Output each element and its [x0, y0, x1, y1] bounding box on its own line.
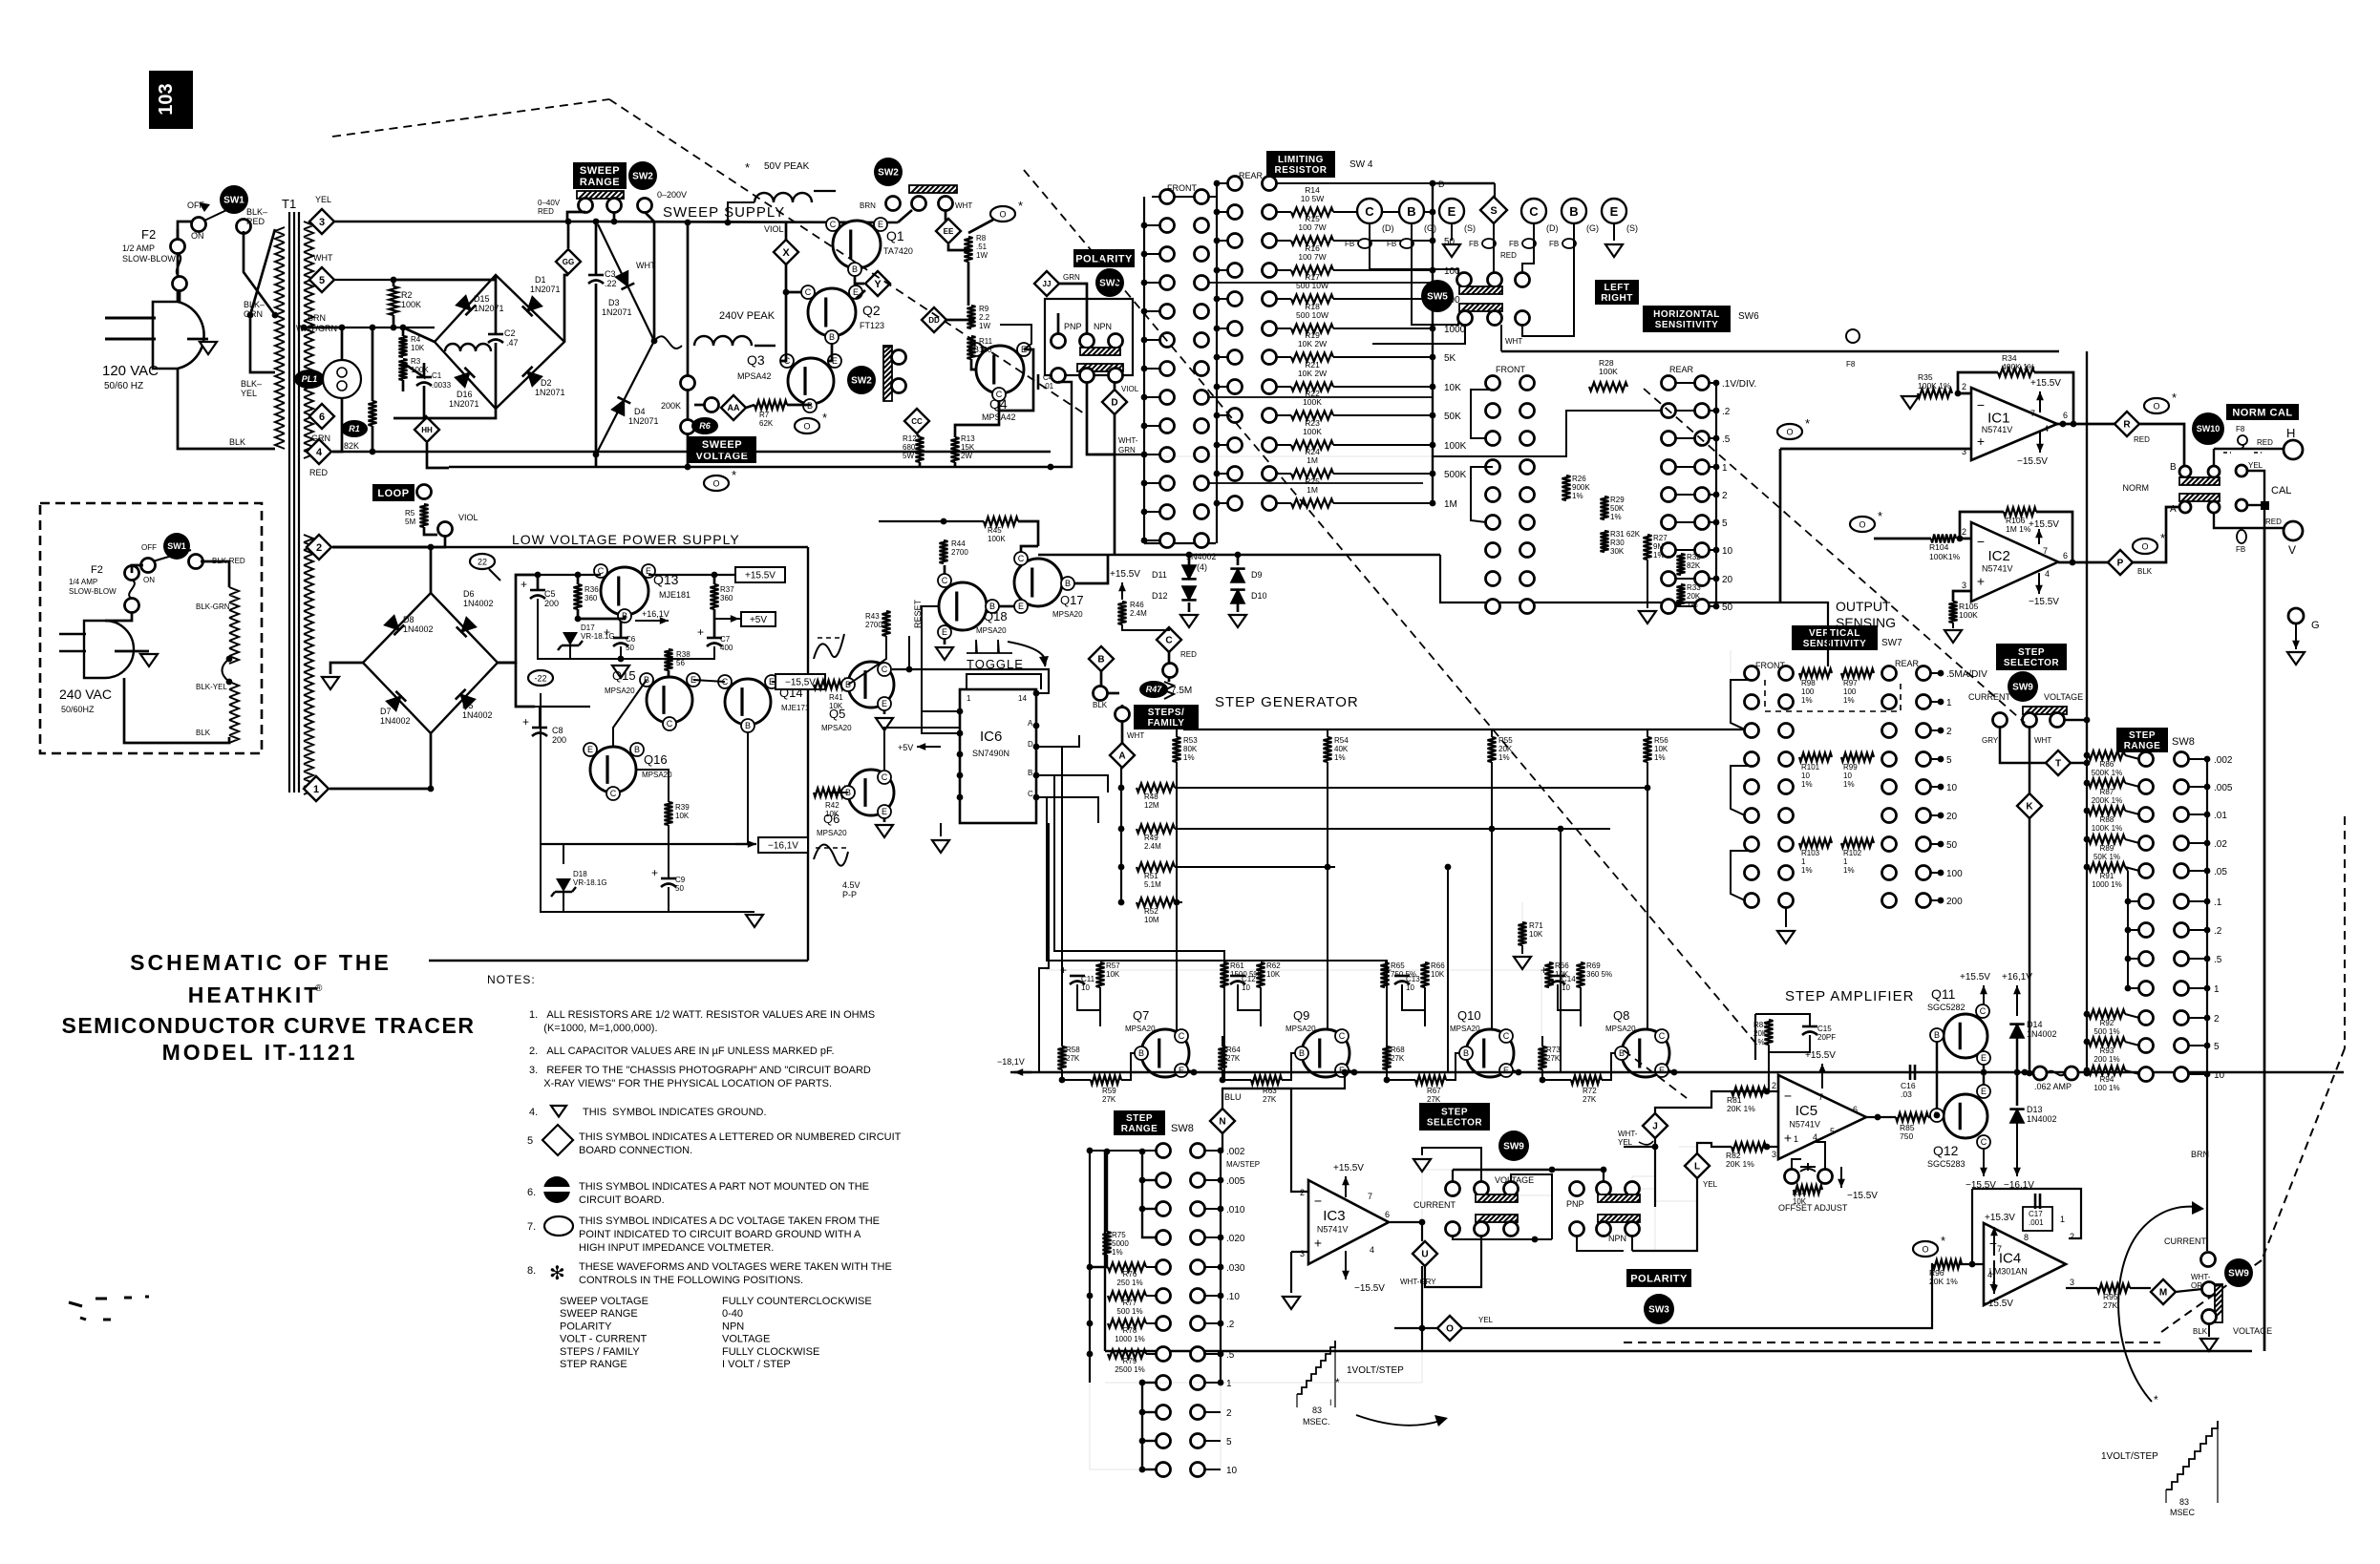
SW4 rear bus dot 7 [1214, 384, 1221, 391]
svg-text:RED: RED [246, 217, 266, 226]
wire ic2 out [2058, 561, 2108, 564]
svg-text:RED: RED [309, 468, 329, 477]
svg-text:R4: R4 [411, 335, 421, 344]
node 4 (transformer tap) [307, 439, 331, 464]
junction r36 [575, 572, 582, 579]
svg-text:LEFT: LEFT [1604, 283, 1630, 293]
contact CURRENT sw9 [2201, 1253, 2216, 1267]
arrow -16.1 d13 [2016, 1123, 2018, 1176]
junction r75 top [1104, 1149, 1111, 1155]
svg-text:SWEEP SUPPLY: SWEEP SUPPLY [663, 204, 785, 221]
svg-text:10K: 10K [1654, 745, 1668, 753]
wire B to blk [1100, 671, 1103, 686]
svg-text:R53: R53 [1183, 736, 1198, 745]
svg-text:C2: C2 [504, 328, 516, 338]
SW6 rear link 5 [1675, 521, 1695, 523]
AA left contact [705, 398, 719, 412]
junction Q7 e [1191, 1069, 1198, 1076]
wire loop down [424, 527, 437, 535]
svg-text:−15.5V: −15.5V [2029, 597, 2059, 607]
wire q12 e up [1983, 1072, 1986, 1085]
terminal V big [2284, 521, 2303, 540]
T1 core line 2 [293, 212, 295, 793]
svg-text:10M: 10M [1144, 916, 1159, 924]
SW4 rear contact 3 [1228, 264, 1243, 278]
wire R17 right [1333, 298, 1433, 300]
SW7 rear contact 5 [1882, 809, 1897, 823]
wire R72 to base [1602, 1053, 1615, 1080]
svg-text:RANGE: RANGE [2124, 741, 2161, 751]
wire q18 b to q17 e [999, 605, 1014, 608]
resistor R21 10K 2W [1291, 383, 1333, 391]
svg-text:WHT-: WHT- [1118, 436, 1138, 445]
node U [1413, 1241, 1437, 1266]
dashed diag E [1644, 389, 2025, 723]
LR contact l [1516, 311, 1530, 326]
SW4 rear contact b 2 [1263, 234, 1277, 248]
svg-text:.030: .030 [1226, 1263, 1245, 1274]
capacitor C17 .001 box [2023, 1207, 2052, 1231]
transistor Q3 MPSA42 [788, 358, 834, 404]
wire Q8 c up [1657, 1029, 1662, 1032]
svg-text:1%: 1% [1801, 866, 1813, 875]
op-amp IC1 N5741V [1971, 388, 2057, 460]
ferrite bead [1482, 239, 1496, 248]
svg-text:1M: 1M [1307, 485, 1318, 495]
svg-text:2700: 2700 [865, 621, 882, 629]
svg-text:SGC5282: SGC5282 [1927, 1003, 1966, 1012]
wire bottom join [595, 454, 598, 467]
wire r71 top [1521, 902, 1523, 922]
SW2 vertical hatch bar [883, 346, 892, 401]
svg-text:YEL: YEL [1618, 1138, 1633, 1147]
svg-text:1/2 AMP: 1/2 AMP [122, 243, 155, 253]
plug240 prong bot [59, 650, 86, 653]
svg-text:IC3: IC3 [1323, 1208, 1345, 1224]
wire M to contact [2176, 1289, 2202, 1292]
SW7 front contact b 3 [1779, 752, 1794, 767]
svg-text:200K: 200K [661, 401, 681, 411]
svg-text:240 VAC: 240 VAC [59, 687, 112, 702]
fuse F2 terminal top [171, 240, 185, 254]
svg-text:C: C [1503, 1031, 1510, 1041]
svg-text:1N2071: 1N2071 [449, 399, 479, 409]
SW8l link 11 [1204, 1469, 1221, 1470]
svg-text:1VOLT/STEP: 1VOLT/STEP [2101, 1451, 2158, 1462]
node 2 (transformer tap) [307, 535, 331, 560]
240VAC option dashed box [40, 503, 262, 753]
wire CC down [917, 434, 920, 437]
svg-text:R13: R13 [961, 434, 975, 443]
capacitor C14 10 [1550, 975, 1565, 978]
label STEP RANGE left [1114, 1110, 1165, 1135]
wire fb top bus [1433, 182, 1495, 184]
wire O left [1394, 1327, 1437, 1329]
svg-text:J: J [1652, 1122, 1658, 1132]
arrow +15.5 c [1121, 582, 1123, 600]
svg-text:15K: 15K [961, 443, 975, 452]
svg-text:6.: 6. [527, 1187, 536, 1198]
resistor R49 2.4M [1137, 825, 1175, 834]
wire R92 right [2125, 1014, 2139, 1018]
svg-text:O: O [712, 479, 719, 489]
wire R15 left [1276, 240, 1291, 242]
svg-text:50K 1%: 50K 1% [2093, 853, 2120, 861]
SW6 rear contact b 4 [1695, 488, 1710, 502]
svg-text:2: 2 [316, 542, 322, 554]
junction n bus [1342, 1069, 1349, 1076]
SW1 contact right [237, 220, 251, 234]
wire jj down [1059, 284, 1087, 334]
svg-text:+: + [1977, 433, 1985, 449]
svg-text:C14: C14 [1562, 975, 1576, 983]
SW4 front contact 4 [1160, 333, 1175, 348]
dc oval ic1 out [2144, 398, 2169, 413]
svg-text:THESE WAVEFORMS AND VOLTAGES W: THESE WAVEFORMS AND VOLTAGES WERE TAKEN … [579, 1261, 892, 1273]
wire ic6 C out [1036, 797, 1098, 823]
junction sw2 mid [611, 219, 618, 225]
node X [774, 240, 798, 264]
svg-text:SLOW-BLOW: SLOW-BLOW [122, 254, 176, 264]
ground r27 [1639, 611, 1656, 623]
SW7 rear contact b 4 [1917, 780, 1931, 794]
svg-text:SELECTOR: SELECTOR [1427, 1118, 1483, 1129]
svg-text:0–40V: 0–40V [538, 199, 561, 207]
wire R17 left [1276, 298, 1291, 300]
capacitor C5 200 [530, 589, 545, 592]
svg-text:10: 10 [1722, 546, 1733, 557]
svg-text:+15.5V: +15.5V [745, 571, 776, 581]
svg-text:100K: 100K [1303, 427, 1322, 436]
junction d11 top [1186, 552, 1193, 559]
svg-text:D13: D13 [2027, 1105, 2043, 1114]
socket lead S [1493, 223, 1495, 241]
wire socket b1 down [1412, 241, 1458, 325]
svg-text:E: E [1659, 1066, 1665, 1075]
SW8r link 0 [2188, 758, 2207, 760]
SW6 front contact 5 [1486, 516, 1500, 530]
transistor Q8 MPSA20 [1622, 1029, 1669, 1077]
SW6 front box outline2 [1471, 467, 1493, 522]
svg-text:1: 1 [1843, 857, 1848, 866]
svg-text:+: + [1314, 1235, 1322, 1250]
SW6 front contact b 7 [1520, 572, 1535, 586]
wire Q10 c up [1501, 1029, 1506, 1032]
inductor 50V peak [754, 193, 812, 202]
svg-text:FB: FB [1469, 240, 1478, 248]
SW6 front contact b 8 [1520, 600, 1535, 614]
switch SW3 bubble [1095, 268, 1124, 297]
svg-text:100: 100 [1801, 687, 1815, 696]
socket terminal E [1602, 199, 1626, 223]
svg-text:GRN: GRN [1118, 446, 1136, 454]
wire R62 down [1260, 987, 1262, 1026]
resistor R89 50K 1% [2089, 835, 2125, 844]
wire q13 rail2 [648, 574, 737, 576]
SW4 rear contact 10 [1228, 467, 1243, 481]
SW8l contact 4 [1157, 1260, 1171, 1275]
svg-text:(K=1000, M=1,000,000).: (K=1000, M=1,000,000). [529, 1023, 658, 1034]
svg-text:2: 2 [1962, 527, 1966, 537]
svg-text:+15.5V: +15.5V [2029, 519, 2059, 530]
svg-text:REAR: REAR [1239, 171, 1264, 180]
PNPr low a [1570, 1222, 1584, 1236]
svg-text:1%: 1% [1801, 780, 1813, 789]
wire D up [1114, 382, 1116, 390]
resistor R32 82K [1677, 554, 1686, 575]
SW7 rear contact b 8 [1917, 894, 1931, 908]
wire T to bus [2071, 762, 2087, 765]
label VERTICAL SENSITIVITY [1792, 625, 1878, 650]
SW5 wiper upper [1459, 286, 1502, 294]
node J [1643, 1113, 1668, 1138]
svg-text:LIMITING: LIMITING [1278, 155, 1324, 165]
wire R53 col down [1176, 762, 1178, 902]
node CC [904, 409, 929, 433]
wire col 1562 lower [1491, 829, 1493, 1032]
wire R58 top [1061, 1036, 1063, 1046]
SW2 vertical hatch [885, 345, 891, 347]
fuse 240 top [125, 566, 139, 581]
svg-text:2.4M: 2.4M [1144, 842, 1161, 851]
svg-text:R42: R42 [825, 801, 839, 810]
svg-text:R97: R97 [1843, 679, 1858, 687]
svg-text:R56: R56 [1654, 736, 1668, 745]
SW7 front contact 3 [1745, 752, 1759, 767]
junction q5c [906, 666, 913, 673]
SW4 rear contact b 3 [1263, 264, 1277, 278]
IC6 left pin dot [957, 730, 964, 737]
wire blk gnd [2208, 1323, 2210, 1337]
wire Q1 B down [855, 276, 864, 284]
wire C1 top [403, 363, 424, 377]
ground R35 [1902, 396, 1919, 409]
svg-text:R72: R72 [1583, 1087, 1597, 1095]
svg-text:SW6: SW6 [1738, 311, 1759, 322]
SW8r right bus [2206, 759, 2208, 1074]
SW4 rear contact 5 [1228, 322, 1243, 336]
SW4 rear stub 0 [1217, 182, 1228, 184]
svg-text:OFF: OFF [141, 543, 157, 552]
SW6 front contact 6 [1486, 543, 1500, 558]
junction row868 drop [1558, 826, 1564, 833]
capacitor C1 .0033 [416, 376, 432, 379]
svg-text:.01: .01 [2214, 811, 2227, 821]
SW8r contact b 1 [2175, 780, 2189, 794]
SW4 front contact b 3 [1195, 305, 1209, 319]
arrow into +5v [726, 618, 739, 620]
svg-text:H: H [2286, 426, 2295, 440]
resistor R33 20K 1% [1677, 584, 1686, 605]
svg-text:SWEEP: SWEEP [702, 439, 742, 451]
dc oval bottom bus [704, 476, 729, 491]
svg-text:E: E [1179, 1066, 1184, 1075]
svg-text:YEL: YEL [241, 389, 257, 398]
svg-text:20: 20 [1722, 575, 1733, 585]
junction d9 top [1235, 552, 1242, 559]
SW6 front contact b 4 [1520, 488, 1535, 502]
wire r75 top [1106, 1152, 1108, 1232]
SW8r inner stub 1004 [2128, 958, 2139, 960]
svg-text:WHT: WHT [313, 253, 333, 263]
svg-text:SEMICONDUCTOR CURVE TRACER: SEMICONDUCTOR CURVE TRACER [61, 1013, 475, 1038]
SW4 rear contact 0 [1228, 177, 1243, 191]
svg-text:.5: .5 [1226, 1350, 1235, 1361]
SW8r contact b 11 [2175, 1067, 2189, 1082]
wire R2 bottom to brn [393, 315, 395, 328]
svg-text:+16,1V: +16,1V [2002, 972, 2032, 983]
svg-text:(4): (4) [1197, 562, 1207, 572]
switch SW10 bubble [2192, 412, 2224, 445]
svg-text:20: 20 [1946, 812, 1958, 822]
node 3 (transformer tap) [309, 209, 334, 234]
svg-text:R78: R78 [1123, 1326, 1137, 1335]
svg-text:+5V: +5V [750, 615, 767, 625]
wire J lower left [1624, 1146, 1655, 1148]
svg-text:7.: 7. [527, 1221, 536, 1233]
SW6 rear contact 8 [1662, 600, 1676, 614]
wire R18 left [1276, 328, 1291, 329]
svg-text:R8: R8 [976, 234, 987, 243]
svg-text:−15.5V: −15.5V [1354, 1283, 1385, 1294]
ic4 fb left drop [1971, 1189, 1973, 1264]
wire bottom bus y489 [449, 466, 1051, 469]
SW8r contact 11 [2139, 1067, 2154, 1082]
svg-text:E: E [882, 699, 887, 708]
wire ic2 fb left [1960, 512, 2004, 539]
border bottom solid [1105, 1350, 2252, 1352]
svg-text:VOLTAGE: VOLTAGE [722, 1334, 770, 1345]
wire R11 down [971, 359, 976, 370]
SW10 contact A [2179, 501, 2191, 513]
terminal BLK steps [1094, 687, 1108, 701]
svg-text:7: 7 [1818, 1092, 1823, 1102]
SW8r contact 10 [2139, 1039, 2154, 1053]
pol contact a [1052, 334, 1066, 349]
transistor Q12 SGC5283 [1944, 1094, 1987, 1138]
SW8r contact b 10 [2175, 1039, 2189, 1053]
svg-text:−: − [1784, 1088, 1792, 1103]
svg-text:YEL: YEL [2248, 461, 2263, 470]
svg-text:7: 7 [2043, 546, 2048, 556]
dashed border right [2344, 816, 2346, 1048]
loop contact [417, 485, 432, 499]
BRN contact [886, 197, 901, 211]
diode D14 1N4002 [2010, 1025, 2024, 1038]
svg-text:CIRCUIT BOARD.: CIRCUIT BOARD. [579, 1194, 665, 1206]
SW4 rear contact b 5 [1263, 322, 1277, 336]
SW4 front out row3 [1208, 282, 1433, 284]
svg-text:1: 1 [1801, 857, 1806, 866]
svg-text:1N4002: 1N4002 [463, 599, 494, 608]
SW8l outer to low [1090, 1383, 1142, 1469]
svg-text:.5: .5 [2214, 955, 2222, 965]
IC6 right pin dot [1033, 744, 1040, 750]
stray marks bottom left [69, 1297, 149, 1320]
240v peak underline [754, 345, 776, 347]
SW8l stub 0 [1090, 1150, 1157, 1152]
svg-text:1%: 1% [1334, 753, 1346, 762]
SW7 value stub 2 [1930, 729, 1941, 731]
svg-text:R76: R76 [1123, 1270, 1137, 1279]
SW7 rear contact b 7 [1917, 866, 1931, 880]
SW7 front contact b 6 [1779, 837, 1794, 852]
SW9b low b [1475, 1222, 1489, 1236]
wire q18 e down [944, 639, 946, 645]
SW7 rear contact 2 [1882, 724, 1897, 738]
SW6 rear link 7 [1675, 578, 1695, 580]
SW8l contact 7 [1157, 1347, 1171, 1362]
wire R14 right [1333, 211, 1433, 213]
svg-text:NPN: NPN [722, 1321, 744, 1332]
svg-text:POLARITY: POLARITY [1630, 1274, 1688, 1285]
wire gnd bottom lvps [541, 898, 754, 912]
IC6 right pin dot [1033, 794, 1040, 801]
wire R66 down [1424, 987, 1426, 1026]
wire HH down [427, 443, 449, 468]
resistor R79 2500 1% [1108, 1350, 1146, 1359]
SW4 rear stub 10 [1217, 473, 1228, 475]
svg-text:500 1%: 500 1% [2093, 1027, 2119, 1036]
wire tap2 to bridge2 [332, 547, 431, 593]
SW8r contact 8 [2139, 982, 2154, 996]
wire ic6 reset loop [922, 606, 960, 711]
SW8r contact b 6 [2175, 923, 2189, 938]
SW6 value stub 5 [1709, 521, 1716, 523]
junction ic3 out [1419, 1219, 1426, 1226]
node L [1685, 1153, 1710, 1178]
SW4 front bus dot 7 [1141, 423, 1148, 430]
svg-text:R39: R39 [675, 803, 690, 812]
svg-text:−: − [1314, 1193, 1322, 1208]
svg-text:4: 4 [2044, 424, 2049, 433]
svg-text:R75: R75 [1112, 1231, 1126, 1239]
wire R3 bottom [402, 380, 405, 391]
svg-text:O: O [803, 422, 810, 432]
wire ic1 out [2057, 423, 2114, 426]
svg-text:10: 10 [1242, 983, 1250, 992]
svg-text:B: B [1569, 204, 1578, 219]
PNPr bar 1 [1598, 1194, 1640, 1202]
SW4 rear bus dot 6 [1214, 354, 1221, 361]
wire pnp up [1603, 1170, 1604, 1182]
svg-text:22: 22 [478, 558, 487, 567]
svg-text:L: L [1694, 1162, 1700, 1173]
svg-text:(G): (G) [1586, 223, 1599, 233]
svg-text:250 1%: 250 1% [1116, 1279, 1142, 1287]
wire r37 [713, 575, 716, 584]
svg-text:+15.5V: +15.5V [1960, 972, 1990, 983]
svg-text:R88: R88 [2100, 815, 2114, 824]
wire R59 to base [1121, 1053, 1135, 1080]
wire -22 from bridge [498, 663, 535, 707]
wire tap5 to bridge [393, 279, 496, 282]
SW4 front contact 0 [1160, 219, 1175, 233]
wire plug bottom to ground stub [187, 338, 208, 341]
SW4 rear stub 7 [1217, 386, 1228, 388]
dc oval q3b [795, 418, 819, 433]
ground bridge2 [322, 677, 339, 689]
SW6 front contact 1 [1486, 404, 1500, 418]
resistor R2 100K [390, 286, 398, 315]
wire C11 down [1077, 984, 1100, 1010]
svg-text:1: 1 [2214, 984, 2220, 995]
PNPr up a [1570, 1182, 1584, 1196]
diode D10 [1231, 590, 1244, 603]
svg-text:C1: C1 [432, 371, 442, 380]
svg-text:100K: 100K [988, 535, 1006, 543]
svg-text:103: 103 [156, 83, 177, 115]
